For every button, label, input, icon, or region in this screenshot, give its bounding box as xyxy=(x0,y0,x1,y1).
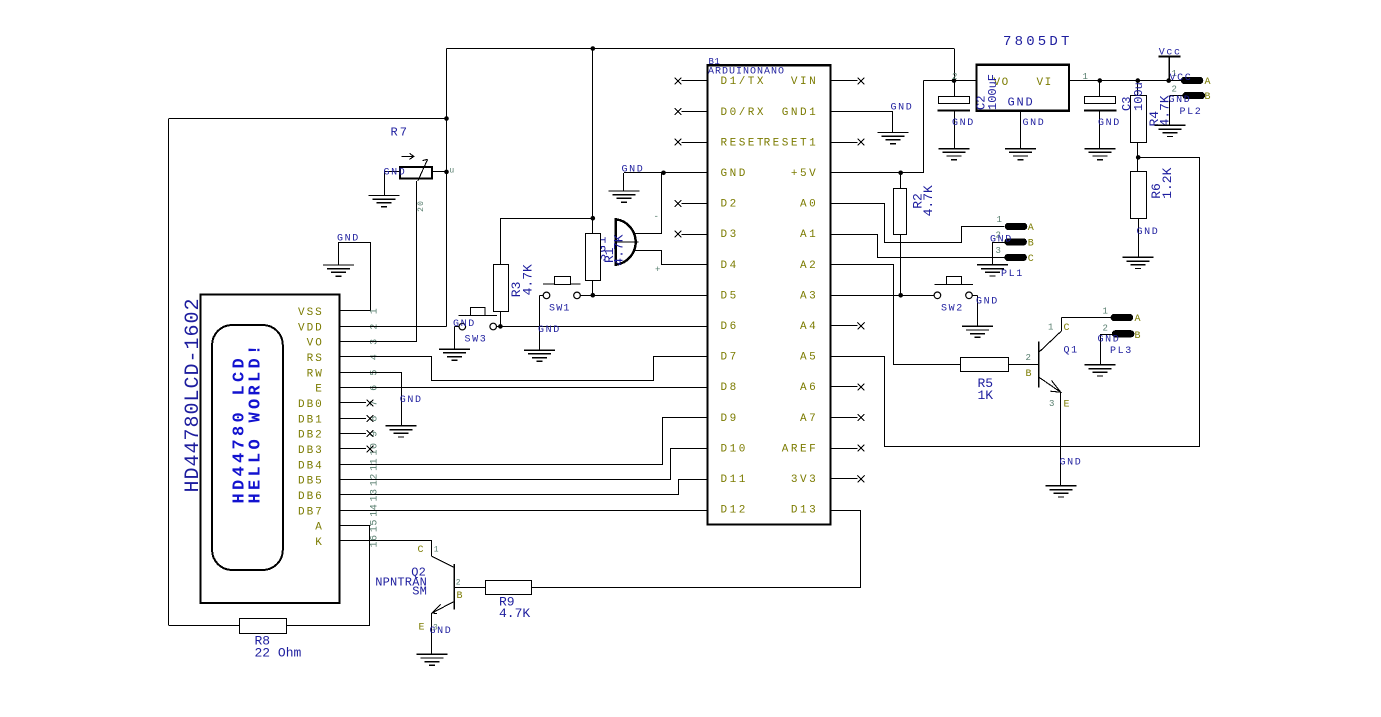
wire C2 bottom lead xyxy=(954,111,956,148)
wire E to D8 xyxy=(339,387,707,389)
contact SW3 left xyxy=(459,323,466,330)
svg-text:8: 8 xyxy=(370,415,381,422)
svg-text:A: A xyxy=(1028,223,1034,234)
wire GND1 drop xyxy=(892,112,894,132)
no-connect x on A7 xyxy=(858,414,865,421)
no-connect x on VIN xyxy=(858,78,865,85)
no-connect x on RESET xyxy=(675,139,682,146)
svg-text:4.7K: 4.7K xyxy=(499,606,530,621)
wire PL3 pin2 stub xyxy=(1100,334,1112,336)
svg-text:B: B xyxy=(1135,331,1141,342)
svg-text:VDD: VDD xyxy=(298,322,324,334)
junction R3/SW3/D6 xyxy=(498,324,503,329)
wire GND pin to buzzer node xyxy=(664,172,708,174)
wire buzzer - to GND net xyxy=(635,233,662,235)
svg-text:R7: R7 xyxy=(391,126,409,140)
wire R3 bottom lead xyxy=(500,312,502,327)
svg-text:9: 9 xyxy=(370,430,381,437)
svg-text:HD44780LCD-1602: HD44780LCD-1602 xyxy=(182,297,205,492)
svg-text:D10: D10 xyxy=(721,443,748,455)
svg-text:2: 2 xyxy=(456,579,461,588)
wire +5V top rail xyxy=(447,48,955,50)
svg-text:PL1: PL1 xyxy=(1001,269,1024,280)
svg-text:GND: GND xyxy=(721,168,748,180)
wire C2 top lead xyxy=(954,81,956,96)
junction R2/SW2/A3 xyxy=(898,293,903,298)
wire VSS to ground loop xyxy=(339,243,371,311)
junction VO node / C2 xyxy=(952,78,957,83)
wire GND pin to ground xyxy=(624,172,664,174)
svg-text:D1/TX: D1/TX xyxy=(721,76,767,88)
ground (GND1) xyxy=(878,133,909,144)
svg-text:DB5: DB5 xyxy=(298,476,324,488)
wire D2 stub xyxy=(682,203,708,205)
svg-text:PL2: PL2 xyxy=(1180,107,1203,118)
svg-text:4.7K: 4.7K xyxy=(520,264,535,295)
svg-text:GND1: GND1 xyxy=(782,107,818,119)
svg-text:A2: A2 xyxy=(800,260,818,272)
wire 7805 GND to ground xyxy=(1020,111,1022,149)
wire +5V pin to regulator xyxy=(831,172,924,174)
wire DB5 to D10 xyxy=(340,449,708,480)
connector PL1 pin 2 xyxy=(1004,238,1027,245)
svg-text:A1: A1 xyxy=(800,229,818,241)
svg-text:2: 2 xyxy=(1103,323,1108,333)
svg-text:A: A xyxy=(1205,77,1211,88)
no-connect x on D1/TX xyxy=(675,78,682,85)
svg-text:1: 1 xyxy=(370,308,381,315)
svg-text:DB0: DB0 xyxy=(298,399,324,411)
wire LCD pin 10 stub xyxy=(339,448,366,450)
svg-text:DB3: DB3 xyxy=(298,445,324,457)
svg-text:+: + xyxy=(655,265,660,275)
wire C3 bottom lead xyxy=(1099,111,1101,148)
wire PL1 pin2 to ground xyxy=(992,242,994,264)
wire RESET stub xyxy=(682,142,708,144)
wire buzzer + to D4 xyxy=(635,251,708,265)
svg-text:D11: D11 xyxy=(721,474,748,486)
svg-text:GND: GND xyxy=(1023,118,1046,129)
junction GND pin / buzzer xyxy=(661,171,666,176)
junction +5V / left branch xyxy=(444,116,449,121)
ground (Q2 emitter) xyxy=(416,654,447,665)
resistor R6 body xyxy=(1131,172,1147,219)
svg-text:D3: D3 xyxy=(721,229,739,241)
svg-text:GND: GND xyxy=(337,234,360,245)
svg-text:PL3: PL3 xyxy=(1110,346,1133,357)
wire A1 to PL1 pin3 xyxy=(831,235,1005,258)
Arduino Nano B1 body xyxy=(708,65,831,524)
svg-text:B: B xyxy=(1028,239,1034,250)
connector PL3 pin 1 xyxy=(1111,314,1134,321)
svg-text:B: B xyxy=(1026,369,1032,380)
junction +5V / R2 xyxy=(898,171,903,176)
wire R5 to Q1 base xyxy=(1008,364,1039,366)
wire D0/RX stub xyxy=(682,111,708,113)
svg-text:DB1: DB1 xyxy=(298,414,324,426)
voltage regulator 7805 body xyxy=(977,65,1070,111)
wire C3 top lead xyxy=(1099,81,1101,96)
ground (7805) xyxy=(1005,149,1036,160)
wire VIN stub xyxy=(831,80,858,82)
svg-text:A3: A3 xyxy=(800,290,818,302)
junction pot/+5V xyxy=(444,170,449,175)
svg-text:3: 3 xyxy=(996,246,1001,256)
wire pot left terminal to GND xyxy=(384,171,400,173)
contact SW1 right xyxy=(574,292,581,299)
svg-text:1: 1 xyxy=(1103,307,1108,317)
svg-text:RESET: RESET xyxy=(721,137,767,149)
svg-text:K: K xyxy=(315,537,324,549)
potentiometer R7 wiper diagonal xyxy=(418,159,428,181)
svg-text:Vcc: Vcc xyxy=(1159,48,1182,59)
wire +5V down to R1 xyxy=(592,49,594,234)
wire R3 top lead xyxy=(500,218,502,265)
wire DB4 to D9 xyxy=(340,418,708,465)
svg-text:DB7: DB7 xyxy=(298,506,324,518)
ground (PL3) xyxy=(1085,365,1116,376)
svg-text:D8: D8 xyxy=(721,382,739,394)
resistor R4 body xyxy=(1131,96,1147,143)
wire SW2 right stub xyxy=(972,295,977,297)
junction R4/R6/A5 xyxy=(1136,155,1141,160)
no-connect x on DB0 xyxy=(367,400,374,407)
wire LCD pin 13 stub xyxy=(339,494,370,496)
wire LCD pin 7 stub xyxy=(339,402,366,404)
svg-text:A4: A4 xyxy=(800,321,818,333)
LCD module LCD1 HD44780LCD-1602 body xyxy=(200,294,339,603)
svg-text:1.2K: 1.2K xyxy=(1160,167,1175,198)
svg-text:GND: GND xyxy=(1169,95,1192,106)
junction VI / C3 xyxy=(1098,78,1103,83)
svg-text:C: C xyxy=(1064,323,1070,334)
wire PL2 pin2 to ground xyxy=(1169,96,1171,125)
ground (RW) xyxy=(386,426,417,437)
wire SW3 left stub xyxy=(455,326,459,328)
svg-text:GND: GND xyxy=(1098,334,1121,345)
svg-text:SW1: SW1 xyxy=(549,303,571,314)
no-connect x on RESET1 xyxy=(858,139,865,146)
wire LCD pin 12 stub xyxy=(339,479,370,481)
ground (Q1 emitter) xyxy=(1046,486,1077,497)
svg-text:A: A xyxy=(1135,314,1141,325)
svg-text:GND: GND xyxy=(1098,118,1121,129)
connector PL1 pin 1 xyxy=(1005,223,1028,230)
wire LCD pin 6 stub xyxy=(339,387,370,389)
wire VO to pot wiper xyxy=(339,341,417,343)
svg-text:1: 1 xyxy=(1048,323,1053,333)
resistor R9 body xyxy=(486,581,532,595)
no-connect x on D2 xyxy=(675,200,682,207)
svg-text:D0/RX: D0/RX xyxy=(721,107,767,119)
svg-text:100u: 100u xyxy=(1132,82,1146,111)
ground (VSS) xyxy=(323,265,354,276)
svg-text:HELLO WORLD!: HELLO WORLD! xyxy=(247,341,266,503)
wire SW2 to ground xyxy=(977,295,979,326)
svg-text:DB2: DB2 xyxy=(298,430,324,442)
svg-text:7: 7 xyxy=(370,400,381,407)
no-connect x on D3 xyxy=(675,231,682,238)
wire R8 to A branch xyxy=(286,625,370,627)
wire A5 to R4/R6 node xyxy=(831,158,1200,447)
svg-text:GND: GND xyxy=(453,319,476,330)
svg-text:RW: RW xyxy=(307,368,324,380)
wire R6 to ground xyxy=(1138,219,1140,257)
wire LCD pin 8 stub xyxy=(339,418,366,420)
wire LCD pin 2 stub xyxy=(339,326,370,328)
junction rail / R1 branch xyxy=(591,46,596,51)
wire GND1 to ground xyxy=(831,111,894,113)
svg-text:B1: B1 xyxy=(709,57,721,67)
svg-text:100uF: 100uF xyxy=(986,74,1000,110)
svg-text:1K: 1K xyxy=(978,388,994,403)
no-connect x on DB1 xyxy=(367,415,374,422)
svg-text:D13: D13 xyxy=(791,505,818,517)
ground (B1 GND) xyxy=(608,191,639,202)
contact SW1 left xyxy=(543,292,550,299)
svg-text:7805DT: 7805DT xyxy=(1003,34,1073,50)
resistor R3 body xyxy=(494,265,509,312)
wire LCD pin 14 stub xyxy=(339,510,370,512)
resistor R1 body xyxy=(586,234,601,281)
wire PL3 pin2 to ground xyxy=(1100,334,1102,364)
svg-text:22 Ohm: 22 Ohm xyxy=(255,646,302,661)
wire RW to ground xyxy=(340,373,402,426)
wire PL1 pin2 stub xyxy=(992,242,1004,244)
svg-text:4.7K: 4.7K xyxy=(921,185,936,216)
svg-text:4.7K: 4.7K xyxy=(612,234,627,265)
svg-text:GND: GND xyxy=(1137,227,1160,238)
svg-text:VSS: VSS xyxy=(298,307,324,319)
wire +5V drop to VDD (left) xyxy=(446,49,448,327)
resistor R8 body xyxy=(240,619,287,634)
svg-text:A7: A7 xyxy=(800,413,818,425)
svg-text:B: B xyxy=(457,591,463,602)
wire buzzer - up to GND junction xyxy=(661,173,663,234)
ground (PL2) xyxy=(1154,125,1185,136)
no-connect x on A4 xyxy=(858,322,865,329)
svg-text:GND: GND xyxy=(1008,96,1035,110)
svg-text:DB4: DB4 xyxy=(298,460,324,472)
junction Vcc / PL2 xyxy=(1166,78,1171,83)
svg-text:GND: GND xyxy=(538,325,561,336)
connector PL2 pin 1 xyxy=(1181,77,1204,84)
svg-text:VO: VO xyxy=(307,338,324,350)
LCD screen window xyxy=(212,325,283,570)
svg-text:1: 1 xyxy=(997,215,1002,225)
capacitor C2 body xyxy=(938,97,971,111)
svg-text:GND: GND xyxy=(400,395,423,406)
connector PL1 pin 3 xyxy=(1004,254,1027,261)
wire R9 to D13 xyxy=(532,511,861,588)
wire Q1 collector to PL3 pin1 xyxy=(1061,317,1110,319)
svg-text:VCC: VCC xyxy=(1170,73,1193,84)
wire LCD pin 9 stub xyxy=(339,433,366,435)
svg-text:1: 1 xyxy=(434,546,439,555)
no-connect x on AREF xyxy=(858,445,865,452)
svg-text:GND: GND xyxy=(952,118,975,129)
svg-text:SW3: SW3 xyxy=(465,335,488,346)
contact SW2 right xyxy=(966,292,973,299)
wire LCD pin 15 stub xyxy=(339,525,370,527)
wire LCD pin 5 stub xyxy=(339,372,370,374)
wire down to ground (GND pin) xyxy=(623,173,625,191)
capacitor C3 body xyxy=(1084,97,1117,111)
svg-text:A6: A6 xyxy=(800,382,818,394)
wire SW3 to ground xyxy=(454,327,456,349)
wire SW2 left stub xyxy=(901,295,934,297)
wire VI to Vcc rail xyxy=(1069,80,1169,82)
connector PL2 pin 2 xyxy=(1183,92,1206,99)
svg-text:u: u xyxy=(449,167,454,176)
wire AREF stub xyxy=(831,448,858,450)
resistor R2 body xyxy=(894,189,907,235)
wire LCD pin 4 stub xyxy=(339,356,370,358)
wire D3 stub xyxy=(682,234,708,236)
wire +5V riser xyxy=(923,81,925,173)
svg-text:D12: D12 xyxy=(721,505,748,517)
wire D5 row xyxy=(580,295,707,297)
junction R1/SW1/D5 xyxy=(591,293,596,298)
svg-text:GND: GND xyxy=(891,103,914,114)
wire LCD pin 11 stub xyxy=(339,464,370,466)
svg-text:D6: D6 xyxy=(721,321,739,333)
junction VI / R4 xyxy=(1136,78,1141,83)
svg-text:2: 2 xyxy=(1026,353,1031,363)
wire D6 row xyxy=(500,326,707,328)
svg-text:GND: GND xyxy=(384,168,407,179)
wire R4 top lead xyxy=(1137,81,1139,96)
resistor R5 body xyxy=(961,358,1009,372)
svg-text:E: E xyxy=(1064,400,1070,411)
svg-text:10: 10 xyxy=(370,442,381,455)
potentiometer R7 body xyxy=(400,167,432,179)
ground (R6) xyxy=(1123,257,1154,268)
wire RS to D7 xyxy=(340,357,708,381)
wire VDD to +5V drop xyxy=(339,326,446,328)
wire pot right terminal to +5V xyxy=(432,171,447,173)
svg-text:E: E xyxy=(315,384,324,396)
svg-text:Q1: Q1 xyxy=(1064,346,1079,357)
wire DB7 to D12 xyxy=(339,510,707,512)
ground (SW3) xyxy=(439,349,470,360)
transistor Q2 NPNTRAN SM xyxy=(431,556,454,614)
svg-text:B: B xyxy=(1205,92,1211,103)
wire LCD pin 16 stub xyxy=(339,540,370,542)
wire left boundary down to R8 xyxy=(168,119,170,626)
svg-text:A0: A0 xyxy=(800,199,818,211)
svg-text:GND: GND xyxy=(976,297,999,308)
wire SW3 right stub xyxy=(497,326,501,328)
svg-text:D4: D4 xyxy=(721,260,739,272)
wire A2 to R5 xyxy=(831,265,961,365)
transistor Q1 xyxy=(1039,331,1062,392)
svg-text:A5: A5 xyxy=(800,352,818,364)
svg-text:DB6: DB6 xyxy=(298,491,324,503)
wire down to ground (pot) xyxy=(384,172,386,196)
switch SW3 xyxy=(458,308,497,316)
wire A down to R8 row xyxy=(340,526,370,626)
svg-text:3: 3 xyxy=(1049,399,1054,409)
svg-text:RS: RS xyxy=(307,353,324,365)
switch SW1 xyxy=(543,277,581,285)
wire SW1 to ground xyxy=(539,295,541,349)
no-connect x on DB2 xyxy=(367,430,374,437)
wire Q1 collector up xyxy=(1061,318,1063,331)
svg-text:GND: GND xyxy=(1060,458,1083,469)
no-connect x on A6 xyxy=(858,384,865,391)
svg-text:RESET1: RESET1 xyxy=(764,137,819,149)
wire left boundary to R8 xyxy=(169,625,240,627)
svg-text:D2: D2 xyxy=(721,199,739,211)
junction R1/R3 +5V xyxy=(591,216,596,221)
wire R1 to D5 node xyxy=(592,280,594,295)
svg-text:3: 3 xyxy=(433,624,438,633)
wire A6 stub xyxy=(831,386,858,388)
svg-text:VI: VI xyxy=(1037,77,1053,89)
svg-text:+5V: +5V xyxy=(791,168,818,180)
ground (PL1) xyxy=(977,265,1008,276)
svg-text:SW2: SW2 xyxy=(941,304,964,315)
wire Q1 emitter to ground xyxy=(1060,392,1062,485)
wire R2 top lead xyxy=(900,173,902,188)
wire PL2 pin2 stub xyxy=(1170,95,1183,97)
wire D1/TX stub xyxy=(682,80,708,82)
wire +5V to left boundary xyxy=(169,118,447,120)
wire +5V to 7805 VO xyxy=(924,80,977,82)
wire DB6 to D11 xyxy=(340,480,708,495)
wire A0 to PL1 pin1 xyxy=(831,204,1005,243)
svg-text:D9: D9 xyxy=(721,413,739,425)
switch SW2 xyxy=(934,277,973,285)
ground (C2) xyxy=(939,149,970,160)
svg-text:A: A xyxy=(315,522,324,534)
wire R2 bottom to SW2 node xyxy=(900,235,902,296)
svg-text:15: 15 xyxy=(370,519,381,532)
ground (SW1) xyxy=(524,350,555,361)
buzzer SG1 body xyxy=(616,219,639,265)
svg-text:GND: GND xyxy=(990,235,1013,246)
wire Q2 emitter to ground xyxy=(431,613,433,654)
wire LCD pin 3 stub xyxy=(339,341,370,343)
connector PL3 pin 2 xyxy=(1112,330,1135,337)
svg-text:-: - xyxy=(654,212,659,222)
svg-text:20: 20 xyxy=(417,200,426,212)
svg-text:SM: SM xyxy=(412,584,427,598)
potentiometer R7 adjust arrow xyxy=(402,153,414,159)
svg-text:VIN: VIN xyxy=(791,76,818,88)
wire rail down to 7805 VO node xyxy=(954,49,956,81)
wire Q2 base to R9 xyxy=(454,587,486,589)
wire A4 stub xyxy=(831,325,858,327)
svg-text:D5: D5 xyxy=(721,290,739,302)
svg-text:3V3: 3V3 xyxy=(791,474,818,486)
wire 3V3 stub xyxy=(831,478,858,480)
wire RESET1 stub xyxy=(831,142,858,144)
wire K to Q2 collector xyxy=(340,541,432,556)
svg-text:C: C xyxy=(1028,254,1034,265)
wire R4 to R6 xyxy=(1137,143,1139,172)
ground (SW2) xyxy=(962,326,993,337)
svg-text:C: C xyxy=(418,545,424,556)
svg-text:2: 2 xyxy=(1172,84,1177,94)
svg-text:D7: D7 xyxy=(721,352,739,364)
contact SW2 left xyxy=(934,292,941,299)
ground (C3) xyxy=(1084,149,1115,160)
wire SW1 left stub xyxy=(540,295,544,297)
svg-text:GND: GND xyxy=(622,165,645,176)
contact SW3 right xyxy=(490,323,497,330)
